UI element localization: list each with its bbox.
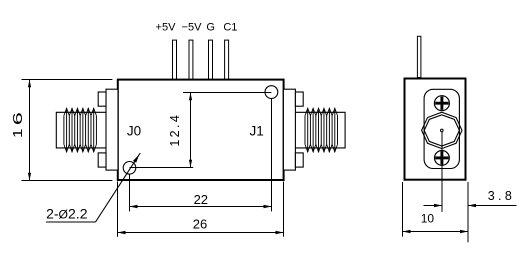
coupling nut outer octagon	[422, 112, 462, 148]
mounting hole top-right	[265, 86, 278, 99]
connector J1 thread knurl	[305, 108, 338, 115]
dim 3.8 extension line right	[467, 182, 469, 242]
connector shell (end view)	[424, 89, 459, 168]
svg-text:−5V: −5V	[182, 21, 203, 33]
pin C1	[225, 40, 229, 79]
svg-text:J0: J0	[127, 123, 141, 138]
module body (end view)	[405, 79, 466, 180]
leader shoulder (underline)	[46, 221, 96, 223]
dim 16 extension line top	[22, 79, 113, 81]
dim 12.4 extension line bottom	[130, 167, 194, 169]
dim 16 extension line bottom	[22, 180, 113, 182]
module body (side view)	[118, 80, 284, 180]
connector J0 barrel	[56, 112, 106, 148]
connector J0 flange	[106, 89, 118, 170]
dim 12.4 extension line top	[183, 92, 271, 94]
svg-text:1: 1	[11, 128, 25, 138]
screw top	[434, 96, 449, 111]
pin G	[209, 40, 213, 79]
center line	[441, 132, 443, 212]
pin +5V	[173, 40, 177, 79]
dim 10 dimension line	[403, 231, 469, 233]
center contact	[441, 129, 444, 132]
dim 26 extension line right	[283, 182, 285, 237]
svg-text:+5V: +5V	[156, 21, 177, 33]
dim 22 dimension line	[130, 206, 272, 208]
mounting hole bottom-left	[123, 162, 136, 175]
leader line for hole callout	[96, 153, 141, 222]
svg-text:6: 6	[11, 112, 25, 125]
svg-text:J1: J1	[249, 123, 263, 138]
connector J0 thread knurl	[64, 108, 97, 115]
svg-text:22: 22	[194, 192, 208, 207]
svg-text:3.8: 3.8	[488, 189, 512, 203]
connector J1 flange	[283, 89, 295, 170]
connector J1 bottom mounting tab	[295, 153, 303, 167]
dim 26 dimension line	[118, 232, 284, 234]
screw bottom	[435, 151, 450, 166]
dim 22 extension line right	[271, 99, 273, 212]
dim 26 extension line left	[117, 182, 119, 237]
connector J0 bottom mounting tab	[98, 153, 106, 167]
svg-text:G: G	[206, 21, 215, 33]
dim 10 extension line left	[402, 182, 404, 237]
dim 3.8 dimension line right segment	[468, 205, 517, 207]
connector J1 top mounting tab	[295, 92, 303, 106]
svg-text:26: 26	[193, 217, 207, 232]
coupling nut inner octagon	[424, 115, 459, 146]
dim 3.8 dimension line left segment	[424, 205, 443, 207]
pin -5V	[189, 40, 193, 79]
dim 12.4 dimension line	[190, 93, 192, 168]
dim 16 dimension line	[29, 80, 31, 181]
svg-text:2-Ø2.2: 2-Ø2.2	[46, 205, 88, 221]
connector J0 top mounting tab	[98, 92, 106, 106]
pin (end view)	[417, 36, 421, 77]
svg-text:12.4: 12.4	[168, 115, 182, 147]
leader arrowhead	[133, 155, 139, 163]
svg-text:C1: C1	[223, 21, 237, 33]
dim 22 extension line left	[129, 174, 131, 211]
connector J1 barrel	[295, 112, 345, 148]
svg-text:10: 10	[421, 212, 435, 226]
